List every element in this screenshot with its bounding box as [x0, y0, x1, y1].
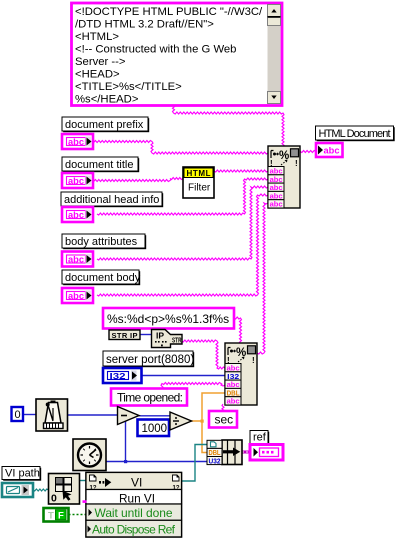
control: document prefix (string) — [62, 134, 93, 149]
string constant: %s:%d<p>%s%1.3f%s — [103, 308, 234, 329]
svg-text:<!-- Constructed with the G We: <!-- Constructed with the G Web — [75, 44, 236, 56]
wire: Tick Count to Bundle U32 and subtract lower input — [105, 461, 207, 463]
svg-text:HTML: HTML — [187, 169, 211, 178]
wire: Open VI Reference to Invoke Node refnum in (teal) — [80, 480, 88, 482]
svg-text:F: F — [58, 510, 64, 521]
label: document title — [62, 157, 139, 172]
wire: HTML Filter to U1 input 1 — [214, 170, 268, 172]
svg-text:Server -->: Server --> — [75, 56, 126, 68]
function icon: Wait Until Next ms Multiple (metronome) — [36, 399, 68, 431]
label: document body — [62, 270, 141, 285]
label: document prefix — [62, 117, 149, 132]
string constant: sec — [209, 411, 237, 428]
svg-text:!: ! — [295, 159, 298, 168]
wire: Wait ms output to subtract — [68, 414, 119, 416]
label: VI path — [2, 467, 41, 481]
wire: TF constant to Wait until done (green dotted) — [69, 514, 87, 516]
function: Bundle (refnum, DBL, U32) — [207, 440, 242, 465]
svg-text:server port(8080): server port(8080) — [106, 354, 194, 366]
wire: document title to HTML Filter — [92, 178, 183, 182]
svg-text:abc: abc — [227, 364, 240, 373]
function icon: IP To String — [152, 330, 183, 348]
svg-text:sec: sec — [215, 413, 234, 427]
svg-text:Wait until done: Wait until done — [95, 506, 173, 520]
svg-text:abc: abc — [324, 146, 340, 156]
svg-text:document title: document title — [65, 159, 133, 171]
wire: subtract output to divide — [139, 415, 171, 417]
control: VI path — [2, 483, 33, 497]
svg-text:VI: VI — [131, 476, 142, 490]
svg-text:abc: abc — [68, 291, 84, 301]
wire: Bundle output to ref indicator (cluster) — [242, 451, 251, 454]
wire: body format constant to U2 format input — [234, 317, 242, 344]
numeric constant: 1000 — [138, 420, 170, 437]
svg-text:document body: document body — [65, 272, 141, 284]
wire: Format Into String U2 output to U1 input 5 — [257, 203, 268, 354]
svg-text:%s:%d<p>%s%1.3f%s: %s:%d<p>%s%1.3f%s — [107, 312, 229, 326]
scrollbar of string constant — [268, 5, 281, 105]
wire: IP To String to U2 input 1 — [182, 340, 226, 369]
wire: HTML template constant to Format Into String U1 format input — [173, 105, 285, 147]
svg-text:HTML Document: HTML Document — [319, 128, 391, 140]
svg-text:VI path: VI path — [5, 468, 40, 480]
svg-text:STR: STR — [172, 338, 182, 345]
function node: Format Into String U1 — [268, 146, 300, 209]
wire: Invoke Node refnum out to Bundle input 1 (teal) — [182, 445, 208, 482]
string constant: Time opened: — [111, 389, 187, 406]
wire: divide output (DBL, orange) to U2 input 4 and Bundle DBL — [191, 420, 202, 422]
wire: U1 output to HTML Document indicator — [300, 151, 316, 153]
function: subtract — [118, 407, 140, 425]
wire: server port I32 to U2 input 2 — [142, 375, 226, 377]
svg-text:document prefix: document prefix — [65, 119, 144, 131]
svg-text:Filter: Filter — [188, 183, 211, 194]
svg-text:STR IP: STR IP — [112, 331, 138, 340]
wire: sec constant to U2 input 5 — [222, 404, 224, 412]
label: additional head info — [61, 192, 163, 207]
function icon: Tick Count (ms) clock — [73, 439, 106, 471]
svg-text:Auto Dispose Ref: Auto Dispose Ref — [92, 522, 176, 536]
function icon: Open VI Reference — [49, 474, 80, 505]
wire: document prefix to U1 initial string — [92, 141, 268, 155]
svg-text:abc: abc — [227, 380, 240, 389]
wire: Time opened constant to U2 input 3 — [161, 383, 225, 390]
indicator: ref (cluster of refnum) — [250, 445, 283, 461]
control: document body (string) — [62, 288, 93, 303]
svg-text:%: % — [236, 347, 246, 359]
svg-text:abc: abc — [68, 176, 84, 186]
svg-text:0: 0 — [15, 409, 21, 421]
svg-text:body attributes: body attributes — [65, 236, 138, 248]
svg-text:abc: abc — [68, 254, 84, 264]
wire: additional head info to U1 input 2 — [97, 178, 268, 215]
svg-text:%s</HEAD>: %s</HEAD> — [75, 94, 139, 106]
control: additional head info (string) — [62, 207, 93, 222]
indicator: HTML Document (string) — [316, 143, 343, 157]
svg-text:0: 0 — [51, 493, 57, 505]
control: document title (string) — [62, 173, 93, 188]
wire: document body to U1 input 4 — [97, 194, 268, 296]
numeric constant: 0 — [12, 407, 24, 421]
wire: body attributes to U1 input 3 — [97, 186, 268, 260]
svg-text:IP: IP — [156, 331, 164, 341]
control: server port I32 — [103, 368, 142, 383]
svg-text:<!DOCTYPE HTML PUBLIC "-//W3C/: <!DOCTYPE HTML PUBLIC "-//W3C/ — [75, 6, 263, 18]
invoke node: VI (Run VI) — [83, 473, 182, 538]
label: HTML Document — [316, 126, 395, 141]
function: divide — [170, 412, 192, 430]
svg-text:<HEAD>: <HEAD> — [75, 69, 120, 81]
svg-text:<HTML>: <HTML> — [75, 31, 119, 43]
function icon: HTML Filter — [183, 167, 214, 198]
svg-text:abc: abc — [68, 210, 84, 220]
control: body attributes (string) — [62, 252, 93, 267]
svg-text:ref: ref — [253, 432, 267, 444]
svg-text:%: % — [279, 150, 289, 162]
wire: 1000 constant to divide — [169, 426, 171, 429]
boolean constant: TF (false) — [44, 508, 69, 522]
svg-text:Time opened:: Time opened: — [117, 391, 183, 405]
svg-text:U32: U32 — [209, 458, 221, 465]
svg-text:I32: I32 — [110, 372, 127, 381]
svg-text:Run VI: Run VI — [119, 491, 155, 505]
wire: VI path control to Open VI Reference (teal squiggle) — [33, 489, 49, 491]
function icon: String To IP — [109, 330, 140, 340]
wire: String To IP to IP To String (blue) — [140, 334, 151, 336]
label: server port(8080) — [103, 351, 194, 367]
wire: 0 constant to Wait ms (blue) — [23, 414, 36, 416]
function node: Format Into String U2 — [225, 343, 257, 406]
svg-text:T: T — [48, 511, 54, 522]
svg-text:abc: abc — [270, 200, 283, 209]
label: ref — [250, 431, 269, 445]
label: body attributes — [62, 234, 146, 249]
svg-text:1000: 1000 — [142, 423, 168, 435]
svg-text:abc: abc — [68, 137, 84, 147]
svg-text:additional head info: additional head info — [64, 194, 159, 206]
svg-text:abc: abc — [227, 397, 240, 406]
svg-text:<TITLE>%s</TITLE>: <TITLE>%s</TITLE> — [75, 81, 182, 93]
svg-text:/DTD HTML 3.2 Draft//EN">: /DTD HTML 3.2 Draft//EN"> — [75, 18, 214, 30]
string constant: HTML template with scrollbar — [72, 3, 283, 106]
svg-text:!: ! — [252, 356, 255, 365]
